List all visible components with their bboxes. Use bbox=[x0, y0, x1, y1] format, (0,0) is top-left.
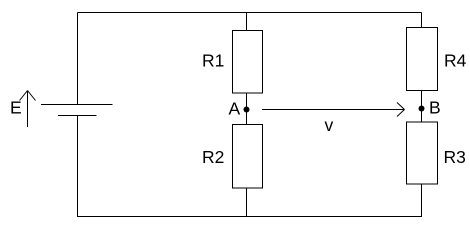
wire left lower bbox=[77, 116, 79, 218]
node B bbox=[419, 106, 425, 112]
wire bottom bbox=[78, 216, 422, 218]
wire middle branch top bbox=[246, 13, 248, 31]
svg-text:v: v bbox=[325, 115, 334, 135]
node A bbox=[244, 107, 250, 113]
resistor R4 bbox=[407, 28, 438, 91]
wire left upper bbox=[77, 13, 79, 105]
svg-text:B: B bbox=[429, 98, 441, 118]
wire top bbox=[78, 12, 422, 14]
svg-text:R3: R3 bbox=[444, 147, 466, 167]
svg-text:E: E bbox=[10, 98, 22, 118]
wire middle branch bottom bbox=[246, 188, 248, 217]
wire right branch top bbox=[421, 13, 423, 28]
wire R1 to R2 through node A bbox=[246, 93, 248, 125]
emf arrow bbox=[20, 91, 36, 128]
svg-text:R2: R2 bbox=[202, 147, 224, 167]
svg-text:R1: R1 bbox=[202, 51, 224, 71]
wire right branch bottom bbox=[421, 184, 423, 217]
resistor R3 bbox=[407, 122, 438, 184]
battery E bbox=[41, 105, 113, 116]
resistor R2 bbox=[233, 125, 263, 189]
svg-text:R4: R4 bbox=[444, 51, 467, 71]
voltage arrow v from A to B bbox=[262, 103, 405, 117]
resistor R1 bbox=[233, 31, 263, 94]
svg-text:A: A bbox=[229, 99, 241, 119]
wire R4 to R3 through node B bbox=[421, 91, 423, 123]
